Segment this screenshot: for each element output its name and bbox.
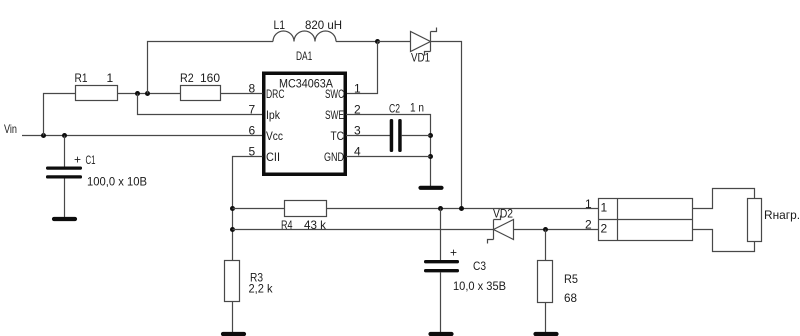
junction rail2/CII net <box>230 227 235 232</box>
svg-text:1 n: 1 n <box>410 101 424 115</box>
ground under R5 <box>536 332 557 336</box>
resistor R2 <box>181 86 221 101</box>
wire node to VD1 anode <box>378 41 411 43</box>
wire R1 to R2 <box>118 93 181 95</box>
junction rail1/C3 <box>438 206 443 211</box>
inductor L1 <box>273 31 336 41</box>
wire Vin rail to pin 6 <box>22 135 263 137</box>
connector X1 body <box>599 199 693 241</box>
ground under C1 <box>54 217 75 221</box>
wire plug bottom <box>693 230 755 252</box>
wire plug top <box>693 189 755 209</box>
capacitor C1 top wire <box>64 136 66 168</box>
wire C3 bottom <box>440 272 442 332</box>
svg-text:VD1: VD1 <box>411 51 430 65</box>
svg-text:C1: C1 <box>86 153 96 167</box>
capacitor C1 bottom wire <box>64 179 66 218</box>
resistor Rload <box>748 199 762 242</box>
wire R5 bottom <box>545 303 547 333</box>
svg-text:TC: TC <box>331 129 345 143</box>
svg-text:C2: C2 <box>389 102 400 116</box>
svg-text:R5: R5 <box>564 272 578 286</box>
wire L1 to node <box>336 41 378 43</box>
svg-text:6: 6 <box>249 124 256 138</box>
capacitor C1 plates <box>46 167 82 179</box>
wire node down to pin 1 SWC <box>346 42 378 94</box>
wire R1 left leg <box>44 94 76 136</box>
svg-text:1: 1 <box>601 201 608 215</box>
svg-text:2,2 k: 2,2 k <box>249 282 274 296</box>
wire R5 top <box>545 230 547 261</box>
wire pin 4 GND branch <box>346 156 431 158</box>
svg-text:SWE: SWE <box>325 108 344 122</box>
svg-text:1: 1 <box>585 197 592 211</box>
wire rail2 left segment <box>233 229 494 231</box>
svg-text:R2: R2 <box>180 71 194 85</box>
wire rail2 right segment <box>514 229 599 231</box>
svg-text:2: 2 <box>585 218 592 232</box>
resistor R4 <box>285 201 327 217</box>
svg-text:DA1: DA1 <box>296 49 313 63</box>
svg-text:7: 7 <box>249 103 256 117</box>
svg-text:Vin: Vin <box>4 122 17 136</box>
junction L1/SWC/VD1 <box>375 39 380 44</box>
svg-text:CII: CII <box>266 150 280 164</box>
svg-text:68: 68 <box>564 291 577 305</box>
junction L1 branch <box>145 91 150 96</box>
IC DA1 MC34063A body <box>264 73 346 174</box>
svg-text:R1: R1 <box>75 71 88 85</box>
wire rail1 left segment <box>233 208 285 210</box>
svg-text:GND: GND <box>324 150 344 164</box>
wire pin 3 TC to C2 <box>346 135 390 137</box>
resistor R5 <box>538 261 553 303</box>
wire pin 2 SWE branch <box>346 115 431 187</box>
junction rail2/R5 <box>543 227 548 232</box>
diode VD1 <box>411 28 437 56</box>
svg-text:Rнагр.: Rнагр. <box>764 208 800 222</box>
svg-text:2: 2 <box>601 222 608 236</box>
junction Vin/C1 <box>62 133 67 138</box>
svg-text:1: 1 <box>107 71 114 85</box>
junction rail1/CII net <box>230 206 235 211</box>
svg-text:Ipk: Ipk <box>266 108 281 122</box>
wire rail1 right segment <box>327 208 599 210</box>
junction C2/TC net <box>428 133 433 138</box>
wire R2 to pin 8 <box>221 93 263 95</box>
svg-text:L1: L1 <box>274 18 286 32</box>
resistor R3 <box>225 261 240 302</box>
ground under R3 <box>223 332 244 336</box>
svg-text:100,0 x 10B: 100,0 x 10B <box>87 175 147 189</box>
svg-text:1: 1 <box>354 82 361 96</box>
junction rail1/VD1 <box>459 206 464 211</box>
resistor R1 <box>76 86 118 101</box>
svg-text:VD2: VD2 <box>493 207 513 221</box>
wire Ipk branch to pin 7 <box>138 94 263 115</box>
svg-text:Vcc: Vcc <box>266 129 283 143</box>
wire pin 5 CII branch down <box>233 157 263 261</box>
wire R3 bottom <box>232 302 234 333</box>
wire C2 right plate to SWE net <box>402 135 431 137</box>
svg-text:160: 160 <box>200 71 220 85</box>
ground under C2 branch <box>421 186 442 190</box>
svg-text:DRC: DRC <box>266 87 285 101</box>
svg-text:SWC: SWC <box>325 87 344 101</box>
ground under C3 <box>431 332 452 336</box>
junction GND net <box>428 154 433 159</box>
svg-text:+: + <box>450 246 457 260</box>
svg-text:820 uH: 820 uH <box>305 18 342 32</box>
svg-text:+: + <box>74 153 81 167</box>
svg-text:C3: C3 <box>473 259 486 273</box>
capacitor C3 plates <box>424 260 459 272</box>
junction Vin/R1 <box>41 133 46 138</box>
wire VD1 cathode to output rail <box>431 42 462 209</box>
junction R1/Ipk <box>135 91 140 96</box>
wire top branch up to L1 <box>148 42 274 94</box>
wire C3 drop <box>440 209 442 261</box>
diode VD2 <box>488 216 514 244</box>
capacitor C2 plates <box>390 119 402 152</box>
svg-text:10,0 x 35B: 10,0 x 35B <box>453 279 506 293</box>
